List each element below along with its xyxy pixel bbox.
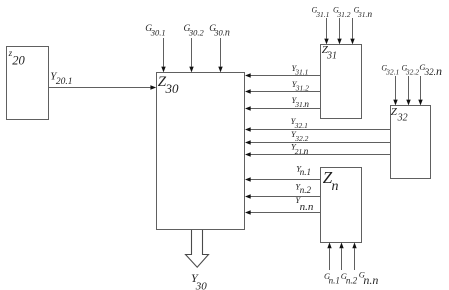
svg-text:20: 20 [12, 54, 25, 68]
block Z31 [321, 44, 362, 119]
wire Y31.1 [245, 63, 321, 78]
input Gn.n [352, 242, 378, 287]
svg-text:32.1: 32.1 [294, 121, 308, 130]
wire Y31.n [245, 95, 321, 111]
input G30.2 [184, 24, 205, 73]
input G30.1 [145, 24, 165, 73]
input Gn.2 [339, 242, 357, 285]
svg-text:n: n [332, 179, 339, 194]
input G31.2 [333, 5, 351, 44]
svg-text:31.: 31. [357, 10, 368, 19]
wire Yn.n [245, 195, 321, 215]
svg-text:n: n [436, 64, 442, 78]
input G32.n [418, 62, 442, 106]
svg-text:n.1: n.1 [300, 167, 311, 177]
svg-text:n.n: n.n [363, 273, 378, 287]
wire Y21.n [245, 142, 391, 157]
svg-text:31.2: 31.2 [336, 10, 350, 19]
input G31.1 [312, 5, 330, 44]
svg-text:n.1: n.1 [329, 275, 340, 285]
input G32.2 [402, 64, 420, 106]
svg-text:32.: 32. [424, 67, 436, 77]
svg-text:n: n [367, 10, 372, 20]
block Zn [321, 168, 362, 243]
svg-text:30.: 30. [213, 28, 225, 38]
block Z32 [391, 106, 431, 179]
svg-text:32.2: 32.2 [405, 68, 419, 77]
svg-text:30: 30 [165, 81, 180, 96]
svg-text:n.2: n.2 [346, 275, 358, 285]
svg-text:30.1: 30.1 [150, 28, 166, 38]
input G32.1 [381, 64, 399, 106]
svg-text:n: n [304, 147, 309, 157]
svg-text:n: n [304, 100, 309, 110]
wire Y31.2 [245, 79, 321, 94]
block Z30 [157, 73, 245, 230]
svg-text:n.2: n.2 [300, 185, 312, 195]
svg-text:32.1: 32.1 [385, 68, 399, 77]
wire Yn.1 [245, 163, 321, 181]
input Gn.1 [324, 242, 340, 285]
svg-text:31.1: 31.1 [315, 10, 329, 19]
svg-text:32.2: 32.2 [294, 134, 308, 143]
svg-text:31: 31 [326, 50, 337, 61]
svg-text:31.2: 31.2 [295, 84, 309, 93]
wire Yn.2 [245, 182, 321, 199]
svg-text:30.2: 30.2 [188, 28, 205, 38]
svg-text:n: n [225, 28, 230, 39]
svg-text:31.: 31. [294, 100, 305, 109]
input G31.n [350, 5, 372, 44]
wire Y32.1 [245, 116, 391, 132]
svg-text:32: 32 [397, 113, 408, 124]
svg-text:31.1: 31.1 [294, 68, 308, 77]
svg-text:20.1: 20.1 [56, 77, 73, 87]
block Z20 [7, 47, 49, 120]
wire Y32.2 [245, 129, 391, 145]
svg-text:30: 30 [195, 280, 208, 290]
svg-text:n.n: n.n [300, 201, 314, 213]
output arrow Y30 (hollow) [186, 230, 209, 290]
wire Y20.1 from Z20 to Z30 [49, 71, 157, 90]
input G30.n [209, 24, 230, 73]
